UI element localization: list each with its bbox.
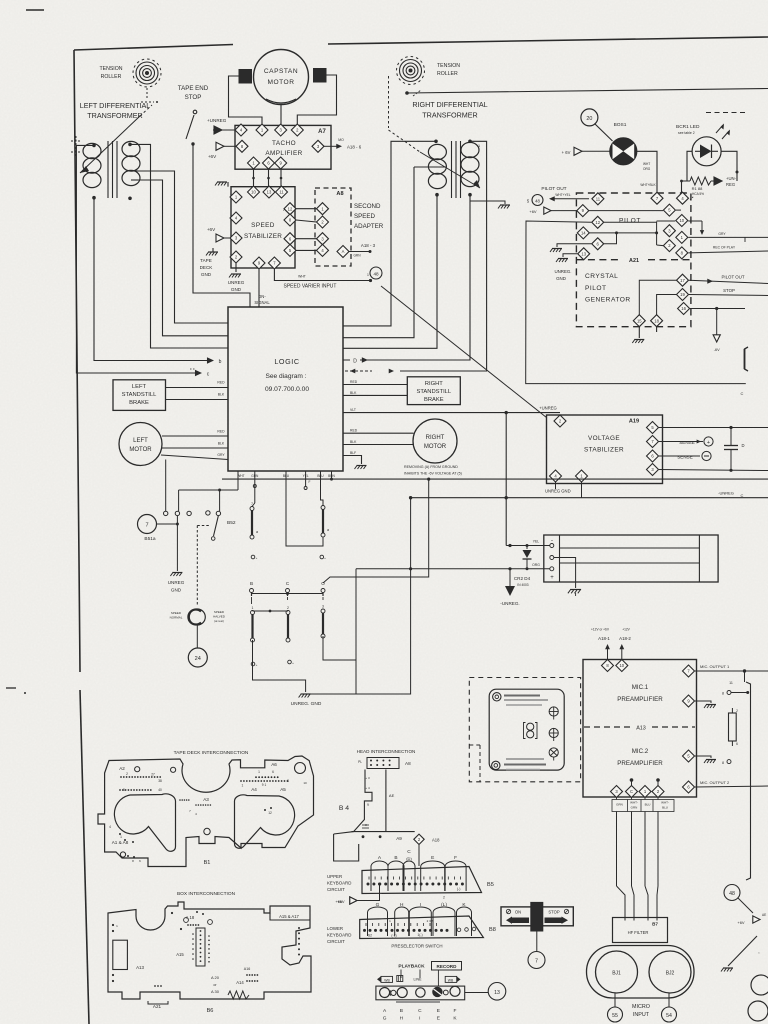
svg-text:MOTOR: MOTOR	[129, 447, 152, 453]
svg-text:9 1: 9 1	[262, 783, 267, 787]
svg-text:A18 - 6: A18 - 6	[347, 145, 362, 150]
tacho pin 8	[236, 140, 248, 152]
svg-text:48: 48	[373, 272, 379, 277]
svg-text:MOTOR: MOTOR	[424, 444, 447, 450]
riser x356	[355, 569, 357, 694]
svg-text:1: 1	[367, 273, 369, 277]
svg-text:2: 2	[443, 896, 445, 900]
connector B5 body	[362, 867, 482, 894]
board B6 inner rect	[113, 940, 128, 969]
battery mid terminal wire	[554, 558, 576, 589]
B4 vertical wire	[385, 770, 387, 832]
tacho pin 3 right	[312, 140, 324, 152]
svg-text:CIRCUIT: CIRCUIT	[327, 939, 345, 944]
stab pin 9	[253, 257, 265, 269]
adapter pin A	[337, 246, 349, 258]
node b arrow and label	[207, 357, 214, 363]
svg-text:AMPLIFIER: AMPLIFIER	[265, 150, 302, 157]
label UNREG GND below stab19	[555, 482, 557, 489]
svg-text:CRYSTAL: CRYSTAL	[585, 273, 618, 280]
svg-text:STABILIZER: STABILIZER	[584, 447, 624, 454]
svg-text:ROLLER: ROLLER	[101, 74, 122, 80]
switch lever bottom right	[728, 936, 757, 966]
svg-text:2: 2	[126, 772, 128, 776]
svg-text:A6: A6	[271, 762, 277, 767]
svg-text:+6V: +6V	[737, 920, 745, 925]
connector B5 tabs	[371, 861, 388, 891]
wires tacho to speed stabilizer	[253, 170, 255, 187]
wire switch to node 7	[536, 931, 538, 951]
svg-text:7: 7	[535, 959, 538, 965]
LED arrows	[716, 125, 723, 133]
svg-text:54: 54	[666, 1013, 672, 1019]
connector B8 tabs	[368, 907, 388, 936]
speed stabilizer box A1	[231, 187, 295, 268]
svg-text:LEFT DIFFERENTIAL: LEFT DIFFERENTIAL	[80, 101, 151, 110]
svg-text:LOWER: LOWER	[327, 926, 343, 931]
svg-text:A15: A15	[176, 952, 184, 957]
wire left transformer top-right to logic pin	[130, 144, 228, 348]
wires left motor to logic	[162, 435, 228, 437]
svg-text:13: 13	[267, 190, 272, 195]
svg-text:5: 5	[123, 788, 125, 792]
svg-text:SENSE: SENSE	[677, 455, 693, 460]
svg-text:LEFT: LEFT	[132, 384, 147, 390]
right margin connector bracket	[746, 682, 751, 880]
svg-text:GND: GND	[231, 287, 242, 292]
svg-text:10: 10	[679, 218, 684, 223]
wire resistor to pilot pin 4	[681, 181, 683, 193]
on stop black slider	[531, 902, 543, 931]
rounded pcb box	[489, 689, 564, 770]
board B6 bottom pads	[154, 985, 156, 987]
wire motor left to tacho pin 1	[229, 76, 263, 124]
node 48 speed varier	[370, 267, 382, 279]
wire LED right lead	[721, 151, 737, 181]
speed selector rotary symbol	[189, 609, 205, 625]
B4 lower box	[334, 834, 359, 861]
svg-text:LEFT: LEFT	[133, 438, 148, 444]
svg-text:WB: WB	[384, 978, 390, 982]
svg-text:MIC.2: MIC.2	[632, 748, 649, 755]
svg-text:+UNREG: +UNREG	[207, 118, 227, 123]
stab19 pin 7	[647, 436, 659, 448]
wire node20 to BOS1	[595, 124, 613, 142]
pilot pin 15	[633, 315, 645, 327]
sense+ wire	[659, 441, 703, 443]
svg-text:A7: A7	[318, 129, 326, 135]
svg-text:WHT+YEL: WHT+YEL	[555, 193, 570, 197]
B4 stepped outline	[334, 770, 372, 835]
right margin bracket upper	[745, 347, 749, 371]
svg-text:TENSION: TENSION	[437, 63, 460, 69]
stab19 pin 4	[550, 470, 562, 482]
diamond 2 head	[414, 834, 424, 844]
border frame left line	[74, 50, 80, 672]
svg-text:A: A	[342, 249, 345, 254]
transformer T-right terminals	[434, 140, 438, 144]
logic bottom stub GRN	[254, 471, 256, 503]
selector strip box	[376, 986, 465, 1000]
arrow A18-1	[607, 647, 609, 659]
partial circle right edge 1	[751, 975, 768, 995]
svg-text:BLF: BLF	[350, 451, 356, 455]
wire strip to node 13	[465, 992, 488, 994]
node c arrow and label	[195, 370, 202, 376]
svg-text:09.07.700.0.00: 09.07.700.0.00	[265, 386, 309, 393]
svg-text:20: 20	[586, 116, 592, 122]
mic pin 9	[683, 695, 695, 707]
svg-text:+6V: +6V	[529, 209, 537, 214]
svg-text:A8: A8	[405, 761, 411, 766]
pilot pin 4	[677, 192, 689, 204]
svg-text:+ 6V: + 6V	[562, 150, 571, 155]
tension roller left icon	[136, 62, 158, 84]
wire diamond2 down	[418, 845, 420, 867]
transformer T-right core	[451, 141, 453, 198]
svg-text:11: 11	[279, 190, 284, 195]
svg-text:48: 48	[729, 891, 735, 897]
svg-text:10: 10	[251, 190, 256, 195]
selector circles	[380, 988, 390, 998]
svg-text:B1: B1	[204, 860, 211, 866]
svg-text:13: 13	[581, 251, 586, 256]
svg-text:A21: A21	[629, 258, 639, 264]
svg-text:9: 9	[367, 803, 369, 807]
left motor circle	[119, 423, 162, 466]
pilot pin 18	[651, 315, 663, 327]
connector B5 tick row	[368, 877, 370, 880]
unreg gnd bottom center	[253, 640, 306, 692]
wire pin15 ground	[638, 327, 640, 338]
svg-text:2 3 5: 2 3 5	[427, 919, 434, 923]
stab pin 8	[284, 214, 296, 226]
svg-text:C: C	[741, 493, 744, 498]
node 55	[614, 993, 616, 1007]
stab pin 2	[230, 251, 242, 263]
wire mic out1 down bracket	[744, 671, 746, 682]
pilot pin 12	[592, 216, 604, 228]
dashed mark above BCR1 LED	[706, 112, 748, 114]
tacho pin 6 bottom	[263, 157, 275, 169]
node 20 circle	[581, 109, 598, 126]
wire pin1 out GRY	[688, 236, 768, 238]
svg-text:VOLTAGE: VOLTAGE	[588, 435, 620, 442]
svg-text:A5: A5	[280, 787, 286, 792]
mic output 2 wire	[695, 786, 768, 787]
svg-text:A13: A13	[636, 726, 646, 732]
node 7 bottom	[528, 952, 545, 969]
svg-text:ORG: ORG	[643, 167, 651, 171]
node 48 bottom right	[724, 885, 740, 901]
svg-text:BLU: BLU	[645, 803, 651, 807]
svg-text:BOS1: BOS1	[614, 122, 627, 128]
svg-text:E: E	[431, 855, 434, 861]
wire stab pin 7 speed varier input	[274, 269, 370, 281]
svg-text:HEAD INTERCONNECTION: HEAD INTERCONNECTION	[357, 749, 416, 754]
pilot pin 10	[676, 215, 688, 227]
transformer T-left terminals	[92, 144, 96, 148]
HF filter box B7	[613, 918, 668, 943]
svg-text:+: +	[292, 661, 294, 665]
svg-text:AE: AE	[389, 793, 395, 798]
svg-text:SPEED: SPEED	[251, 222, 275, 229]
tacho pin 2	[291, 124, 303, 136]
second speed adapter dashed box A8	[315, 188, 351, 266]
stab19 pin 6	[647, 450, 659, 462]
svg-text:C: C	[407, 849, 411, 855]
svg-text:1: 1	[242, 784, 244, 788]
label A9 and dots	[362, 835, 365, 838]
mic wires converge	[617, 886, 626, 921]
svg-text:B51a: B51a	[144, 536, 156, 542]
svg-text:+UN-: +UN-	[726, 176, 736, 181]
long wire top right	[405, 91, 409, 95]
svg-text:NORMAL: NORMAL	[170, 616, 183, 620]
pilot pin 5	[663, 204, 675, 216]
svg-text:C: C	[630, 789, 633, 794]
svg-text:b: b	[219, 359, 222, 365]
svg-text:27: 27	[151, 773, 155, 777]
pilot pin 3	[663, 225, 675, 237]
svg-text:CAPSTAN: CAPSTAN	[264, 68, 298, 75]
selector scribble	[396, 1001, 440, 1003]
icon mini connector	[397, 976, 403, 982]
pilot pin 19	[677, 289, 689, 301]
on stop switch body	[501, 907, 573, 926]
wire contact column to ground	[176, 516, 178, 572]
wire stab19 pin3 out	[659, 470, 768, 471]
svg-text:WHT: WHT	[298, 275, 306, 279]
wire left transformer top-left to node c	[76, 145, 198, 373]
pilot pin 14	[577, 227, 589, 239]
pilot pin 17	[677, 274, 689, 286]
svg-text:HF FILTER: HF FILTER	[628, 930, 649, 935]
mic pin 5	[683, 750, 695, 762]
svg-text:SPEED: SPEED	[214, 610, 225, 614]
svg-text:+ 4: + 4	[365, 786, 370, 790]
partial circle right edge 2	[748, 1001, 768, 1021]
tiny text rows bottom	[506, 758, 544, 760]
svg-text:ROLLER: ROLLER	[437, 71, 458, 77]
switch B52 blade	[214, 516, 219, 537]
svg-text:18: 18	[654, 318, 659, 323]
svg-text:RED: RED	[350, 380, 358, 384]
wire left transformer taps	[131, 170, 138, 172]
ground for pin 6 wire	[557, 244, 591, 247]
tension roller right icon	[400, 60, 422, 82]
svg-text:B: B	[250, 581, 253, 586]
capstan motor circle	[254, 50, 309, 105]
svg-text:A 30: A 30	[211, 989, 220, 994]
logic box	[228, 307, 343, 471]
svg-text:(D): (D)	[406, 856, 412, 861]
svg-text:G: G	[376, 902, 380, 908]
wire stab pin 9 to logic	[258, 269, 260, 307]
adapter pin 1	[317, 203, 329, 215]
board B6 right pads	[295, 935, 297, 937]
wire T-right bottom-left to logic	[343, 195, 437, 349]
stab pin 4	[230, 212, 242, 224]
svg-text:BLK: BLK	[218, 442, 225, 446]
svg-text:15: 15	[637, 318, 642, 323]
voltage stabilizer box A19	[547, 415, 663, 484]
dashed cross marks at left transformer input	[71, 140, 81, 142]
svg-text:12: 12	[268, 811, 272, 815]
stab pin 3	[230, 232, 242, 244]
svg-text:See diagram :: See diagram :	[265, 373, 306, 380]
svg-text:PILOT: PILOT	[619, 218, 641, 225]
wires brake to logic	[166, 387, 229, 389]
logic bottom stub BLU2	[321, 471, 324, 506]
svg-text:8: 8	[287, 779, 289, 783]
node 48 pilot out	[532, 195, 543, 206]
svg-text:TACHO: TACHO	[272, 140, 296, 147]
svg-text:STOP: STOP	[185, 94, 202, 101]
svg-text:BLK: BLK	[350, 440, 357, 444]
svg-text:(-1): (-1)	[391, 934, 396, 938]
transformer T-right arrow	[420, 152, 480, 188]
stab pin 6	[284, 233, 296, 245]
svg-text:+6V: +6V	[208, 154, 217, 159]
logic bottom stub YEL	[305, 471, 307, 486]
mic output 1 wire	[695, 670, 768, 672]
svg-text:TAPE END: TAPE END	[178, 85, 209, 92]
svg-text:B52: B52	[227, 520, 236, 526]
svg-text:REMOVING (A) FROM GROUND: REMOVING (A) FROM GROUND	[404, 465, 458, 469]
inner dashed offset	[469, 744, 480, 746]
svg-text:UNREG GND: UNREG GND	[545, 489, 571, 494]
svg-text:TRANSFORMER: TRANSFORMER	[422, 111, 478, 120]
board B6 bracket A21	[148, 1001, 168, 1004]
svg-text:PREAMPLIFIER: PREAMPLIFIER	[617, 760, 663, 767]
wire pin17 out PILOT OUT	[689, 280, 768, 283]
svg-text:B: B	[400, 1008, 403, 1014]
svg-text:55: 55	[612, 1013, 618, 1019]
svg-text:ADAPTER: ADAPTER	[354, 223, 384, 230]
board B6 outline	[108, 902, 311, 999]
ground right transformer	[470, 195, 505, 204]
wire adapter A to A18-3	[349, 251, 369, 253]
svg-text:13: 13	[494, 990, 500, 996]
svg-text:F: F	[454, 855, 457, 861]
tacho amplifier A7 box	[235, 125, 331, 169]
stab pin 11	[276, 186, 288, 198]
dashed link B52 to speed switch	[197, 525, 209, 527]
svg-text:E: E	[437, 1016, 440, 1022]
ring terminal bottom	[492, 761, 500, 769]
wire motor bottom to tacho pin 3	[280, 105, 282, 124]
svg-text:S2: S2	[368, 934, 372, 938]
svg-text:UPPER: UPPER	[327, 874, 342, 879]
svg-text:+UNREG: +UNREG	[539, 406, 557, 411]
pilot pin 7	[651, 192, 663, 204]
svg-text:A19: A19	[629, 419, 639, 425]
svg-text:6: 6	[272, 770, 274, 774]
svg-text:IN 4003: IN 4003	[517, 583, 528, 587]
on stop arrows	[506, 917, 512, 924]
svg-text:D: D	[353, 359, 357, 365]
wire contact3 to right riser	[323, 636, 356, 660]
pilot pin 6	[592, 238, 604, 250]
svg-text:10: 10	[619, 663, 624, 668]
B4 ground marks near junction	[362, 824, 369, 826]
wire pin16 to -6V	[690, 308, 745, 310]
mic wires down	[616, 798, 618, 800]
svg-text:I: I	[420, 902, 421, 908]
pilot pin 8	[676, 247, 688, 259]
wire left transformer tap1 to logic pin	[138, 171, 228, 323]
svg-text:B 4: B 4	[339, 805, 349, 812]
svg-text:UNREG: UNREG	[168, 580, 185, 585]
svg-text:A9: A9	[396, 836, 402, 841]
svg-text:INHIBITS THE -6V VOLTAGE A: INHIBITS THE -6V VOLTAGE AT (5)	[404, 472, 462, 476]
svg-text:SPEED VARIER INPUT: SPEED VARIER INPUT	[284, 284, 337, 290]
svg-text:RIGHT: RIGHT	[426, 435, 445, 441]
wire pin5 stub	[676, 209, 681, 211]
svg-text:MIC. OUTPUT 2: MIC. OUTPUT 2	[700, 780, 730, 785]
svg-text:H: H	[400, 902, 404, 908]
stab19 pin 3	[647, 464, 659, 476]
svg-text:BRAKE: BRAKE	[424, 397, 444, 403]
svg-text:TAPE DECK INTERCONNECTION: TAPE DECK INTERCONNECTION	[174, 750, 249, 756]
svg-text:12: 12	[595, 220, 600, 225]
wire left transformer bottom-left to node b	[94, 198, 209, 361]
svg-text:MICRO: MICRO	[632, 1004, 650, 1010]
svg-text:I: I	[419, 1016, 420, 1022]
svg-text:STABILIZER: STABILIZER	[244, 233, 282, 240]
svg-text:UNREG.: UNREG.	[554, 269, 571, 274]
icon WB left	[377, 976, 381, 982]
svg-text:BLK: BLK	[350, 391, 357, 395]
svg-text:BLU: BLU	[662, 806, 668, 810]
svg-text:BJ1: BJ1	[612, 971, 621, 977]
svg-text:TAPE: TAPE	[200, 258, 212, 263]
stab pin 7	[268, 257, 280, 269]
svg-text:CIRCUIT: CIRCUIT	[327, 887, 345, 892]
svg-text:A 20: A 20	[211, 975, 220, 980]
svg-text:WB: WB	[448, 978, 454, 982]
fan symbol 1	[549, 707, 558, 716]
svg-text:SPEED: SPEED	[171, 611, 182, 615]
adapter pin 4	[317, 244, 329, 256]
ground near speed stabilizer top	[217, 181, 227, 183]
board B1 left blob cutout	[114, 794, 175, 851]
svg-text:14: 14	[581, 231, 586, 236]
tape end stop switch	[193, 110, 197, 114]
svg-text:VLT: VLT	[350, 408, 356, 412]
svg-text:11: 11	[596, 196, 601, 201]
svg-text:LINE: LINE	[414, 978, 423, 982]
node 24 circle	[196, 625, 198, 648]
BJ2 jack	[649, 951, 691, 993]
svg-text:GND: GND	[556, 276, 566, 281]
svg-text:HALVED: HALVED	[213, 615, 226, 619]
svg-text:8: 8	[722, 761, 724, 765]
svg-text:C: C	[418, 1008, 422, 1014]
svg-text:+: +	[256, 663, 258, 667]
svg-text:A18 - 3: A18 - 3	[361, 243, 376, 248]
svg-text:40: 40	[158, 788, 162, 792]
svg-text:SIGNAL: SIGNAL	[254, 300, 270, 305]
capstan motor brush left	[239, 70, 252, 84]
wire LED left lead	[687, 151, 692, 181]
A13 divider	[584, 726, 630, 728]
svg-text:+: +	[707, 440, 710, 446]
svg-text:BRAKE: BRAKE	[129, 400, 149, 406]
wire left motor GRY branch down to contact	[165, 460, 167, 512]
svg-text:GND: GND	[201, 272, 212, 277]
